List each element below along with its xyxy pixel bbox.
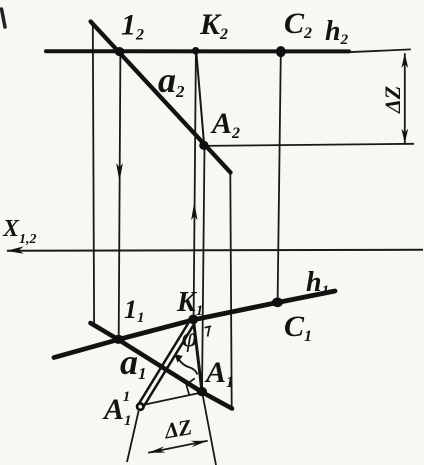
- wire: projection connector from a2 upper end down to a1 left end: [93, 23, 94, 324]
- wire: projection connector from a2 lower end down to a1 right end: [230, 174, 231, 409]
- point K2: [192, 47, 199, 55]
- point C2: [276, 46, 286, 57]
- point A1' (open circle): [137, 403, 143, 409]
- line h1 (horizontal projection of h): [54, 291, 335, 358]
- axis X12: [7, 249, 423, 252]
- wire: projection connector A2 through A1 to extension end: [202, 147, 216, 465]
- wire: projection connector C2 to C1: [278, 53, 281, 302]
- arrow (up) on connector K: [191, 202, 197, 220]
- wire: projection connector 1-2 to 1-1: [119, 52, 121, 339]
- svg-text:φ: φ: [182, 322, 198, 352]
- thin horizontal line through A2 to dimension line: [205, 144, 415, 146]
- segment K2-A2: [196, 52, 204, 146]
- axis arrow left: [7, 246, 24, 253]
- angle arc phi at K1: [177, 356, 198, 375]
- extension line from A1' down-left: [127, 411, 139, 462]
- right-angle mark at A1: [186, 378, 194, 395]
- arrowhead of angle arc: [174, 354, 182, 362]
- wire: projection connector K2 to K1: [194, 52, 196, 319]
- segment K1-A1: [193, 320, 202, 392]
- point A1: [197, 387, 207, 396]
- bottom dimension arrow right: [190, 441, 207, 448]
- point A2: [199, 141, 208, 150]
- scan smudge top-left corner: [2, 9, 6, 27]
- point K1: [188, 315, 198, 325]
- point C1: [272, 298, 283, 308]
- line h2 (frontal projection of horizontal line h): [46, 49, 349, 53]
- double line K1-A1' (true length, rotation) stroke 1: [143, 321, 196, 407]
- svg-text:ΔZ: ΔZ: [380, 86, 405, 114]
- svg-text:ΔZ: ΔZ: [162, 414, 194, 444]
- line a1 (horizontal projection of a): [91, 323, 233, 409]
- double line K1-A1' stroke 2: [139, 318, 192, 404]
- dimension line dZ (right, vertical): [404, 53, 406, 143]
- bottom dimension arrow left: [148, 446, 165, 453]
- line a2 (frontal projection of line a): [91, 22, 231, 173]
- point 1-2: [115, 47, 125, 56]
- point 1-1: [113, 335, 123, 344]
- arrow (down) on connector 1: [116, 163, 123, 182]
- dimension arrow down: [401, 129, 408, 144]
- dimension arrow up: [401, 53, 408, 68]
- right-angle mark at K1: [205, 326, 212, 336]
- dimension line dZ (bottom, slanted): [148, 441, 208, 453]
- thin line A1' to A1: [142, 393, 201, 406]
- thin extension of h2 to dimension line: [348, 49, 411, 52]
